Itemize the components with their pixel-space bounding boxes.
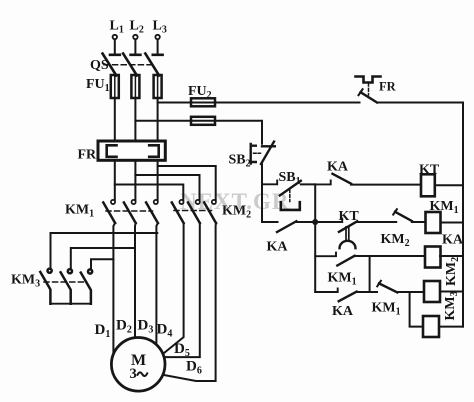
coil KA bbox=[425, 233, 464, 268]
wire tap L3 to KM2 pole3 bbox=[158, 166, 216, 200]
svg-text:D6: D6 bbox=[186, 359, 202, 377]
svg-text:KA: KA bbox=[332, 304, 354, 319]
wire D6 line bbox=[163, 223, 216, 381]
svg-text:KM1: KM1 bbox=[372, 301, 401, 318]
relay contact KA upper bbox=[315, 160, 421, 185]
switch QS bbox=[90, 54, 163, 76]
wire KM3 pole2 feed bbox=[71, 248, 135, 269]
svg-text:KM1: KM1 bbox=[328, 271, 357, 288]
node L1 terminal bbox=[110, 19, 124, 55]
wire KM1NO to KA row bbox=[369, 256, 371, 292]
svg-text:D3: D3 bbox=[138, 318, 154, 336]
svg-text:D1: D1 bbox=[95, 322, 111, 340]
coil KM2 bbox=[424, 257, 463, 302]
wire junction drop bbox=[314, 222, 316, 292]
svg-text:KA: KA bbox=[267, 240, 289, 255]
contactor KM3 star contacts bbox=[11, 269, 92, 304]
svg-text:KA: KA bbox=[327, 160, 349, 175]
fuse FU2 upper bbox=[188, 84, 215, 106]
svg-text:KM2: KM2 bbox=[444, 257, 461, 286]
svg-text:SB2: SB2 bbox=[229, 153, 251, 170]
wire KM3 pole1 feed bbox=[51, 233, 158, 268]
wire branch to KM3 coil bbox=[410, 292, 423, 327]
wire control feed bottom bbox=[135, 121, 262, 144]
coil KT timer bbox=[419, 163, 463, 197]
contactor KM2 main contacts bbox=[172, 200, 251, 223]
svg-text:KA: KA bbox=[442, 233, 464, 248]
contactor contact KM1 NO bbox=[315, 253, 425, 288]
wire D3 line bbox=[156, 223, 158, 345]
wire D5 line bbox=[164, 223, 200, 357]
wire L2 fuse to FR bbox=[134, 98, 136, 141]
contactor KM1 main contacts bbox=[65, 200, 158, 223]
relay contact KA holding bbox=[262, 221, 315, 254]
svg-text:KM3: KM3 bbox=[11, 273, 40, 290]
wire right rail bbox=[462, 103, 464, 327]
coil KM3 bbox=[423, 291, 463, 337]
svg-text:D4: D4 bbox=[157, 322, 173, 340]
wire SB2 to junctions bbox=[261, 164, 263, 222]
wire L1 fuse to FR bbox=[114, 98, 116, 141]
relay contact KA lower bbox=[315, 288, 377, 319]
fuse FU1 bbox=[86, 75, 162, 98]
wire L2 FR to KM1 bbox=[134, 160, 136, 200]
node junction dot bbox=[312, 219, 318, 225]
wire control feed top bbox=[158, 102, 360, 104]
wire D2 line bbox=[134, 223, 137, 338]
svg-text:KM1: KM1 bbox=[430, 199, 459, 216]
thermal relay FR heaters bbox=[78, 141, 166, 163]
svg-text:FU1: FU1 bbox=[86, 77, 110, 94]
wire SB1 right drop bbox=[314, 184, 316, 222]
wire L3 fuse to FR bbox=[157, 98, 159, 141]
thermal relay FR trip contact bbox=[356, 77, 397, 103]
wire KM3 pole3 feed bbox=[91, 259, 113, 269]
contactor contact KM2 interlock bbox=[381, 209, 426, 249]
node L2 terminal bbox=[130, 19, 144, 55]
timer contact KT delayed bbox=[315, 209, 396, 248]
fuse FU2 lower bbox=[191, 117, 215, 125]
wire D1 line bbox=[113, 223, 115, 354]
wire L3 FR to KM1 bbox=[157, 160, 159, 200]
wire D4 line bbox=[163, 223, 184, 354]
node L3 terminal bbox=[153, 19, 167, 55]
wire tap L2 to KM2 pole2 bbox=[135, 175, 199, 200]
svg-text:FR: FR bbox=[379, 80, 397, 94]
svg-text:L3: L3 bbox=[153, 19, 167, 36]
coil KM1 bbox=[426, 199, 464, 233]
pushbutton SB1 start bbox=[262, 170, 315, 210]
svg-text:KM1: KM1 bbox=[65, 203, 94, 220]
contactor contact KM1 interlock bbox=[372, 281, 425, 318]
svg-text:FR: FR bbox=[78, 148, 98, 163]
svg-text:KM3: KM3 bbox=[443, 291, 460, 320]
svg-text:L1: L1 bbox=[110, 19, 124, 36]
svg-text:KM2: KM2 bbox=[381, 232, 410, 249]
wire L1 FR to KM1 bbox=[114, 160, 116, 200]
svg-text:D2: D2 bbox=[116, 318, 132, 336]
wire top rail right bbox=[377, 102, 463, 104]
svg-text:3: 3 bbox=[130, 366, 137, 382]
wire tap L1 to KM2 pole1 bbox=[115, 185, 184, 201]
svg-text:L2: L2 bbox=[130, 19, 144, 36]
pushbutton SB2 stop bbox=[229, 142, 275, 170]
motor M 3-phase bbox=[111, 338, 165, 392]
svg-text:D5: D5 bbox=[174, 341, 190, 359]
